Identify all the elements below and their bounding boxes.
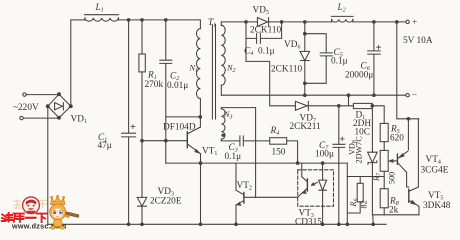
node C4 left	[245, 21, 248, 24]
node C6 top	[373, 21, 376, 24]
node R4 wire on rail	[296, 162, 299, 165]
svg-text:~220V: ~220V	[13, 103, 39, 113]
wire L2 to plus terminal	[353, 21, 406, 23]
resistor D1 2DH10C	[353, 103, 372, 108]
watermark mascot arm telescope	[64, 212, 80, 218]
svg-text:R6: R6	[349, 198, 360, 207]
svg-text:R7: R7	[372, 172, 383, 182]
wire top rail to transformer	[119, 20, 201, 29]
svg-text:T1: T1	[208, 18, 216, 29]
svg-text:3DK48: 3DK48	[423, 201, 451, 211]
WATERMARK	[2, 195, 79, 230]
svg-text:N3: N3	[223, 110, 232, 121]
svg-text:2CZ20E: 2CZ20E	[150, 197, 182, 207]
svg-text:DF104D: DF104D	[163, 123, 196, 133]
wire rail to D1 box	[349, 95, 354, 106]
wire VT2 base	[244, 196, 298, 198]
output terminal plus	[406, 20, 409, 23]
svg-text:VD1: VD1	[71, 115, 87, 126]
wire bridge plus up to top rail	[70, 20, 72, 106]
wire bridge minus down to bottom rail	[47, 106, 49, 224]
diode VD3	[137, 197, 147, 224]
svg-text:0.1μ: 0.1μ	[225, 152, 242, 162]
capacitor C1	[122, 20, 136, 224]
svg-text:CD315: CD315	[295, 218, 322, 228]
optocoupler phototransistor	[298, 163, 308, 197]
wire output minus rail	[221, 94, 406, 96]
node collector stub	[199, 116, 202, 119]
svg-text:0.01μ: 0.01μ	[167, 81, 188, 91]
svg-text:270k: 270k	[145, 80, 164, 90]
wire step down to VD7	[246, 61, 295, 105]
wire R8 return to bottom rail	[372, 215, 419, 225]
node C7 top	[338, 105, 341, 108]
capacitor C4	[246, 22, 282, 62]
svg-text:VT1: VT1	[202, 147, 217, 158]
inductor L1	[85, 15, 119, 22]
node VD6 top	[304, 21, 307, 24]
svg-text:VD6: VD6	[284, 40, 300, 51]
node descender top	[396, 21, 399, 24]
svg-text:−: −	[412, 91, 417, 101]
wire rail end corner down	[346, 163, 348, 224]
wire R7 wiper arrow	[389, 159, 398, 162]
wire R6 top connection	[347, 176, 384, 178]
zener diode VD8	[368, 106, 378, 215]
transformer T1 core	[212, 25, 215, 120]
watermark mascot head	[50, 204, 66, 220]
diode VD6	[300, 22, 310, 95]
winding N1	[196, 29, 200, 128]
svg-text:500: 500	[388, 172, 397, 184]
winding N3	[221, 108, 255, 141]
inductor L2	[331, 16, 353, 22]
svg-text:47μ: 47μ	[98, 141, 112, 151]
wire C2 stub to VT1 collector	[166, 116, 201, 118]
watermark ghost text	[13, 200, 47, 209]
transistor VT5	[409, 119, 419, 215]
diode VD7	[295, 101, 348, 110]
svg-text:2DW7C: 2DW7C	[355, 136, 364, 164]
resistor R4	[270, 138, 298, 163]
node VT1 base at R1/VD3	[141, 139, 144, 142]
wire bottom rail	[48, 223, 386, 225]
svg-text:VD5: VD5	[253, 6, 269, 17]
svg-text:5V 10A: 5V 10A	[403, 36, 433, 46]
svg-text:620: 620	[390, 134, 404, 144]
potentiometer R7	[380, 150, 388, 188]
svg-text:100μ: 100μ	[315, 150, 334, 160]
svg-text:10C: 10C	[355, 128, 371, 138]
resistor R5	[380, 123, 388, 150]
svg-text:0.1μ: 0.1μ	[331, 57, 348, 67]
resistor R6	[347, 177, 363, 214]
diode VD5	[257, 18, 268, 27]
node C7 bottom rail	[338, 223, 341, 226]
wire D1 to R5	[372, 106, 384, 124]
svg-text:VT2: VT2	[237, 181, 252, 192]
wire VT1 base	[142, 140, 187, 142]
svg-text:2k: 2k	[389, 206, 399, 216]
node VT2 emitter bottom rail	[235, 223, 238, 226]
wire	[26, 94, 59, 96]
node VD6 bottom rail	[304, 94, 307, 97]
node C2 top	[165, 19, 168, 22]
wire	[23, 117, 59, 119]
wire VD5 to L2	[269, 21, 332, 23]
optocoupler VT3 box	[298, 170, 334, 206]
svg-text:2CK211: 2CK211	[290, 122, 322, 132]
svg-text:150: 150	[272, 148, 286, 158]
resistor R8	[380, 189, 388, 215]
wire VT1 emitter to bottom rail	[200, 163, 202, 224]
svg-text:20000μ: 20000μ	[345, 71, 373, 81]
capacitor C3	[221, 136, 269, 146]
wire VT4 emitter riser	[407, 119, 409, 150]
svg-text:R4: R4	[270, 126, 280, 137]
capacitor C6	[368, 22, 381, 95]
watermark mascot crown	[51, 195, 65, 204]
wire N2 top to VD5	[221, 21, 257, 23]
svg-text:L1: L1	[95, 3, 104, 14]
node C1 top	[127, 19, 130, 22]
node C6 bottom rail	[373, 94, 376, 97]
output terminal minus	[406, 94, 409, 97]
node	[199, 223, 202, 226]
svg-text:L2: L2	[337, 3, 346, 14]
node LED cathode bottom rail	[321, 223, 324, 226]
watermark mascot body	[51, 220, 65, 230]
svg-text:VT5: VT5	[428, 191, 443, 202]
svg-text:2CK110: 2CK110	[271, 65, 303, 75]
node C1 bottom	[127, 223, 130, 226]
node VD3 bottom	[141, 223, 144, 226]
optocoupler light arrow	[311, 182, 318, 185]
svg-text:3CG4E: 3CG4E	[421, 166, 449, 176]
capacitor C5	[305, 34, 332, 84]
node C4 right	[280, 21, 283, 24]
transistor VT1	[187, 127, 200, 163]
capacitor C2	[160, 20, 172, 163]
svg-text:VT4: VT4	[426, 155, 441, 166]
wire emitter rail	[166, 162, 347, 164]
transistor VT2	[236, 163, 244, 224]
node VT1 emitter rail	[199, 162, 202, 165]
node base wire crossing	[165, 139, 168, 142]
node descender junction	[407, 118, 410, 121]
capacitor C7	[333, 106, 345, 225]
watermark text weiku yixia	[2, 213, 47, 222]
resistor R1	[139, 20, 145, 198]
node rail end bottom	[346, 223, 349, 226]
wire N3 loop down to VT2 base	[255, 108, 257, 198]
svg-text:C4: C4	[244, 47, 253, 58]
node D1 right	[371, 105, 374, 108]
bridge rectifier VD1	[46, 93, 72, 119]
svg-text:82: 82	[360, 200, 369, 208]
svg-text:0.1μ: 0.1μ	[258, 47, 275, 57]
svg-text:N2: N2	[226, 64, 235, 75]
watermark red seal	[23, 197, 40, 214]
wire top rail left of L1	[71, 19, 85, 21]
transistor VT4	[397, 151, 408, 187]
node on minus rail	[347, 94, 350, 97]
node R1 top	[141, 19, 144, 22]
svg-text:2CK110: 2CK110	[250, 26, 282, 36]
node LED anode on rail	[321, 162, 324, 165]
node return bottom rail	[372, 223, 375, 226]
AC input terminal bottom	[20, 116, 23, 119]
AC input terminal top	[23, 93, 26, 96]
winding N2	[221, 22, 225, 95]
svg-text:+: +	[412, 18, 417, 28]
wire plus rail descender to error amp	[397, 22, 419, 119]
optocoupler LED	[319, 163, 327, 224]
